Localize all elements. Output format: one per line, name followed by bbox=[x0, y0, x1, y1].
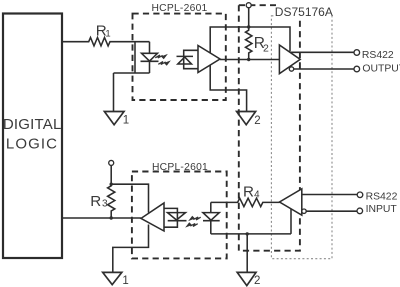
svg-text:2: 2 bbox=[254, 275, 260, 287]
svg-text:RS422: RS422 bbox=[362, 50, 394, 61]
svg-text:HCPL-2601: HCPL-2601 bbox=[151, 3, 207, 14]
svg-text:2: 2 bbox=[254, 115, 260, 127]
svg-text:1: 1 bbox=[105, 28, 110, 39]
svg-text:OUTPUT: OUTPUT bbox=[362, 64, 400, 75]
svg-text:R: R bbox=[243, 184, 254, 201]
svg-text:DS75176A: DS75176A bbox=[275, 5, 333, 19]
svg-text:4: 4 bbox=[254, 190, 260, 201]
svg-text:RS422: RS422 bbox=[366, 192, 398, 203]
svg-text:3: 3 bbox=[102, 199, 108, 210]
svg-text:R: R bbox=[90, 193, 101, 210]
svg-text:DIGITAL: DIGITAL bbox=[3, 116, 62, 133]
svg-text:2: 2 bbox=[263, 43, 269, 55]
svg-text:INPUT: INPUT bbox=[366, 204, 398, 215]
svg-text:1: 1 bbox=[122, 275, 128, 287]
svg-text:1: 1 bbox=[123, 115, 129, 127]
svg-text:LOGIC: LOGIC bbox=[6, 136, 58, 153]
svg-text:HCPL-2601: HCPL-2601 bbox=[152, 162, 208, 173]
